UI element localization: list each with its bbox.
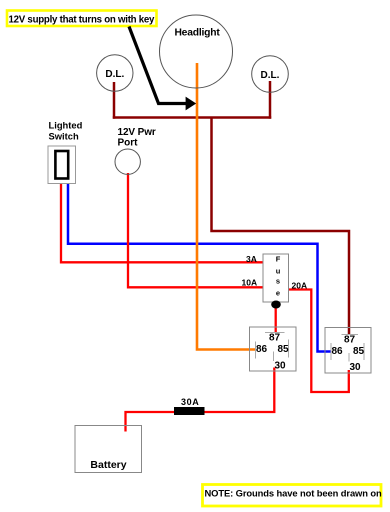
lamp DL2 (right daytime light)	[252, 56, 289, 93]
svg-text:87: 87	[344, 335, 356, 346]
svg-text:F: F	[276, 254, 281, 263]
wire W6 red switch feed to fuse 3A	[61, 184, 263, 263]
svg-text:e: e	[276, 288, 280, 297]
connector J1 (12V power port)	[115, 127, 156, 174]
svg-text:Battery: Battery	[90, 459, 126, 471]
fuse block F1	[263, 254, 289, 302]
svg-text:Headlight: Headlight	[174, 28, 220, 39]
svg-text:10A: 10A	[242, 278, 258, 288]
switch SW1 (lighted switch)	[48, 120, 83, 184]
svg-text:86: 86	[331, 346, 343, 357]
wire W7 red power-port feed to fuse 10A	[128, 173, 263, 287]
wire W3 dark-red drop from right D.L.	[269, 81, 272, 119]
wire W11 orange headlight to relay K1 pin 86	[197, 63, 256, 350]
svg-text:Switch: Switch	[49, 131, 79, 142]
lamp DL1 (left daytime light)	[97, 55, 133, 91]
battery BT1	[75, 426, 142, 473]
svg-text:85: 85	[277, 344, 289, 355]
node N1 (fuse output junction)	[271, 301, 281, 309]
arrow from callout to headlight feed	[129, 27, 196, 111]
svg-text:87: 87	[269, 333, 281, 344]
wire W8 red fuse 20A output to relay K2 pin 30	[289, 290, 349, 393]
fuse F2 30A inline	[174, 397, 205, 415]
svg-text:86: 86	[256, 344, 268, 355]
svg-text:D.L.: D.L.	[261, 70, 280, 81]
wire W10 red relay K1 pin 30 to battery via 30A fuse	[126, 368, 275, 432]
wire W5 blue switch to relay K2 pin 86	[68, 184, 331, 352]
svg-text:s: s	[276, 277, 280, 286]
wire W4 dark-red branch to relay K2 pin 87	[212, 118, 350, 335]
relay K2	[325, 328, 371, 374]
svg-text:u: u	[276, 266, 281, 275]
svg-text:30: 30	[349, 362, 361, 373]
callout: 12V supply that turns on with key	[7, 11, 157, 27]
relay K1	[250, 327, 297, 372]
svg-text:Port: Port	[118, 138, 139, 149]
svg-text:20A: 20A	[292, 281, 308, 291]
svg-text:30: 30	[274, 361, 286, 372]
wire W1 dark-red drop from left D.L.	[113, 82, 116, 119]
svg-text:3A: 3A	[246, 254, 257, 264]
wire W9 red fuse node to relay K1 pin 87	[275, 305, 277, 334]
wire W2 dark-red bus	[113, 116, 271, 119]
svg-text:Lighted: Lighted	[49, 120, 83, 131]
svg-text:12V supply that turns on with: 12V supply that turns on with key	[9, 15, 156, 26]
note: grounds not drawn	[203, 485, 383, 507]
svg-text:12V Pwr: 12V Pwr	[118, 127, 156, 138]
svg-text:NOTE: Grounds have not been dr: NOTE: Grounds have not been drawn on	[205, 488, 383, 499]
svg-text:30A: 30A	[181, 397, 199, 407]
svg-text:85: 85	[353, 346, 365, 357]
headlight lamp	[160, 15, 233, 88]
svg-text:D.L.: D.L.	[105, 69, 124, 80]
